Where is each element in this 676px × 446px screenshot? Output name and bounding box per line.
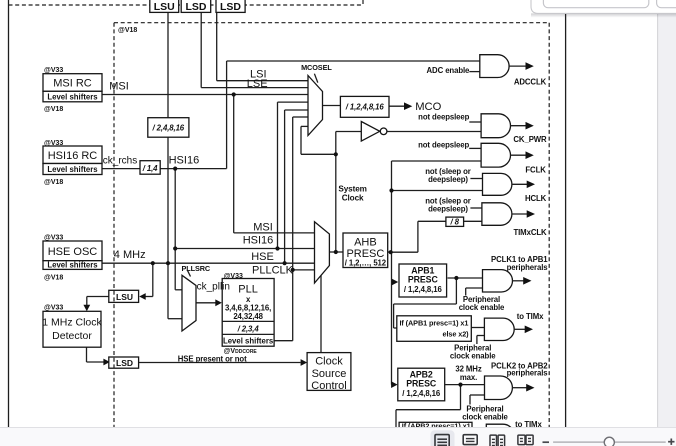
svg-text:/ 8: / 8 [450,218,460,227]
svg-text:ADCCLK: ADCCLK [514,77,547,86]
svg-text:@V18: @V18 [44,274,63,281]
svg-text:Level shifters: Level shifters [47,93,98,102]
svg-text:Level shifters: Level shifters [47,261,98,270]
svg-text:/ 1,2,4,8,16: / 1,2,4,8,16 [345,103,385,112]
svg-text:/ 1,4: / 1,4 [142,164,158,173]
svg-text:ADC enable: ADC enable [427,66,471,75]
svg-text:MSI: MSI [253,221,273,233]
svg-text:PLL: PLL [238,283,258,295]
svg-text:FCLK: FCLK [525,166,546,175]
svg-text:/ 2,3,4: / 2,3,4 [237,324,260,333]
svg-text:LSD: LSD [220,1,241,13]
svg-text:PLLCLK: PLLCLK [252,264,294,276]
svg-text:HSI16: HSI16 [169,155,200,167]
svg-text:not deepsleep: not deepsleep [418,141,469,150]
svg-text:/ 2,4,8,16: / 2,4,8,16 [152,124,185,133]
svg-text:HSI16 RC: HSI16 RC [48,150,98,162]
svg-text:@V33: @V33 [224,273,243,280]
svg-text:@V33: @V33 [44,305,63,312]
svg-text:System: System [338,185,367,194]
svg-text:peripherals: peripherals [507,369,549,378]
svg-text:@V18: @V18 [118,27,137,34]
svg-text:MCOSEL: MCOSEL [301,63,332,72]
svg-text:AHB: AHB [354,237,377,249]
svg-text:@V33: @V33 [44,140,63,147]
svg-text:LSD: LSD [186,1,207,13]
svg-text:clock enable: clock enable [459,303,505,312]
svg-text:4 MHz: 4 MHz [114,249,146,261]
svg-text:PLLSRC: PLLSRC [182,264,211,273]
svg-text:PRESC: PRESC [406,378,437,388]
svg-text:MSI: MSI [109,80,129,92]
svg-text:to TIMx: to TIMx [517,312,544,321]
svg-text:24,32,48: 24,32,48 [233,312,263,321]
svg-text:Level shifters: Level shifters [47,165,98,174]
svg-text:Clock: Clock [315,355,343,367]
svg-text:CK_PWR: CK_PWR [513,135,547,144]
svg-text:max.: max. [460,373,477,382]
svg-text:LSD: LSD [116,358,133,368]
svg-text:clock enable: clock enable [462,413,508,422]
svg-text:ck_rchs: ck_rchs [103,156,137,167]
svg-text:/ 1,2,4,8,16: / 1,2,4,8,16 [404,285,443,294]
svg-text:/ 1,2,4,8,16: / 1,2,4,8,16 [402,389,441,398]
svg-text:deepsleep): deepsleep) [428,204,468,213]
svg-text:Clock: Clock [342,194,364,203]
svg-text:LSU: LSU [154,1,175,13]
svg-text:Source: Source [312,368,347,380]
svg-text:HSE present or not: HSE present or not [178,354,247,363]
svg-text:MCO: MCO [415,101,441,113]
svg-text:@V33: @V33 [44,235,63,242]
svg-text:HCLK: HCLK [525,194,547,203]
svg-text:else x2): else x2) [443,329,470,338]
svg-text:1 MHz Clock: 1 MHz Clock [42,317,102,329]
svg-text:not deepsleep: not deepsleep [418,113,469,122]
svg-text:HSE OSC: HSE OSC [48,246,98,258]
svg-text:MSI RC: MSI RC [53,78,92,90]
svg-text:TIMxCLK: TIMxCLK [513,228,547,237]
svg-text:/ 1,2,…, 512: / 1,2,…, 512 [345,259,387,268]
svg-text:LSU: LSU [116,292,133,302]
svg-text:ck_pllin: ck_pllin [197,281,230,292]
svg-text:clock enable: clock enable [450,351,496,360]
svg-text:Control: Control [311,380,346,392]
svg-text:@V18: @V18 [44,179,63,186]
svg-text:If (APB1 presc=1) x1: If (APB1 presc=1) x1 [400,318,469,327]
svg-text:LSE: LSE [247,78,268,90]
svg-text:@V33: @V33 [44,67,63,74]
svg-text:deepsleep): deepsleep) [428,175,468,184]
svg-text:Detector: Detector [52,330,92,342]
svg-text:peripherals: peripherals [507,263,549,272]
svg-text:PRESC: PRESC [408,274,439,284]
svg-text:@V18: @V18 [44,106,63,113]
svg-text:HSE: HSE [251,251,274,263]
svg-text:Level shifters: Level shifters [223,337,274,346]
svg-text:HSI16: HSI16 [243,235,274,247]
